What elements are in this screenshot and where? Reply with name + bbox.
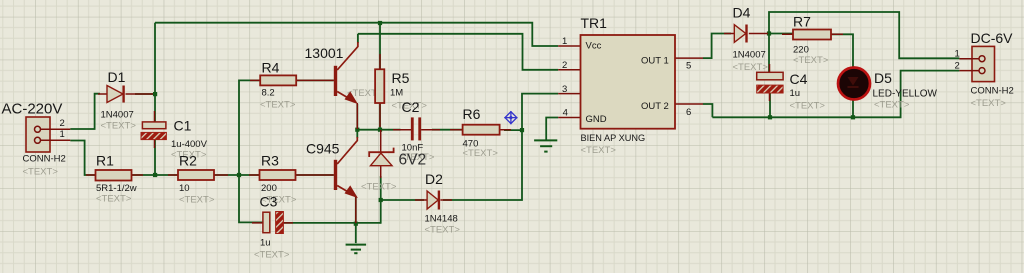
svg-text:1: 1 [955,49,960,60]
capacitor C2 10nF [393,117,440,140]
wire: C1 node down to plate [154,94,156,122]
svg-text:<TEXT>: <TEXT> [101,121,137,132]
svg-text:<TEXT>: <TEXT> [733,62,769,73]
svg-text:<TEXT>: <TEXT> [874,100,910,111]
node: Q1e-Q2c mid rail junction [355,128,359,132]
resistor R4 8.2 [250,75,310,85]
svg-text:200: 200 [261,183,277,194]
svg-text:D4: D4 [733,5,751,21]
wire: TR1 pin4 to ground [546,118,558,140]
node: R6-pin3-D2 junction [520,128,524,132]
svg-text:1u-400V: 1u-400V [171,139,208,150]
resistor R3 200 [249,170,309,180]
svg-text:1N4007: 1N4007 [101,110,134,121]
wire: zener D3 column below [380,176,382,224]
svg-text:13001: 13001 [305,45,344,61]
svg-text:220: 220 [793,45,809,56]
svg-text:<TEXT>: <TEXT> [254,250,290,261]
svg-text:1: 1 [60,129,65,140]
svg-text:C945: C945 [306,141,340,157]
wire: Q1 emitter riser to mid node [356,104,358,130]
transistor Q1 13001 [310,42,358,129]
svg-text:<TEXT>: <TEXT> [361,182,397,193]
wire: pin3 node to TR1 pin3 [522,94,558,131]
svg-text:1N4007: 1N4007 [733,50,766,61]
wire: C3 to emitter column [283,222,380,224]
svg-text:C4: C4 [790,71,808,87]
ground (under TR1 pin4) [534,140,557,151]
svg-text:Vcc: Vcc [586,41,602,52]
capacitor C4 1u (polarized) [757,64,783,101]
wire: D4 node to R7 [769,33,793,35]
wire: LED bottom to rail [852,100,854,117]
svg-text:D2: D2 [425,171,443,187]
node: emitter-C3 wire junction [354,222,358,226]
svg-text:CONN-H2: CONN-H2 [971,86,1014,97]
connector J2 DC-6V CONN-H2 [959,46,994,81]
svg-text:<TEXT>: <TEXT> [179,195,215,206]
svg-text:6: 6 [686,107,691,118]
svg-text:OUT 2: OUT 2 [641,101,669,112]
node: D1-C1 junction [153,92,157,96]
node: C4 bottom rail junction [768,115,772,119]
node: R5-zener mid rail junction [378,128,382,132]
wire: R3 to Q2 base [296,174,334,176]
svg-text:C2: C2 [402,99,420,115]
resistor R7 220 [782,30,843,40]
transistor Q2 C945 [309,137,357,223]
svg-text:4: 4 [563,108,568,119]
node: D4-R7-C4 junction [767,31,771,35]
svg-text:LED-YELLOW: LED-YELLOW [873,89,938,100]
svg-text:<TEXT>: <TEXT> [260,100,296,111]
svg-text:<TEXT>: <TEXT> [425,225,461,236]
zener diode D3 6V2 (vertical) [369,130,393,178]
wire: TR1 pin5 to D4 anode [703,34,731,59]
wire: Q1 collector riser to rail B [357,34,359,43]
wire: C1 bottom plate to R1-R2 row [154,140,156,176]
node: C1-R1-R2 junction [153,173,157,177]
wire: C2 to R6 [432,129,463,131]
svg-text:TR1: TR1 [581,15,608,31]
svg-text:CONN-H2: CONN-H2 [23,154,66,165]
node: LED bottom rail junction [851,115,855,119]
wire: D2 cathode to pin3 riser [443,130,522,200]
svg-text:R2: R2 [179,153,197,169]
svg-text:1N4148: 1N4148 [425,214,458,225]
svg-text:8.2: 8.2 [262,88,275,99]
svg-text:D5: D5 [874,70,892,86]
resistor R2 10 [168,170,228,180]
svg-text:1: 1 [562,36,567,47]
svg-text:<TEXT>: <TEXT> [23,167,59,178]
svg-text:2: 2 [60,118,65,129]
wire: R5 top riser to rail A [379,23,381,69]
diode D4 1N4007 [724,25,768,43]
capacitor C1 1u-400V (polarized) [141,111,166,148]
svg-text:<TEXT>: <TEXT> [463,148,499,159]
wire: AC pin2 to D1 riser [70,94,100,129]
svg-text:<TEXT>: <TEXT> [96,194,132,205]
wire: D4 node up to top right rail [769,12,959,58]
node: R5 top rail junction [378,21,382,25]
svg-text:<TEXT>: <TEXT> [581,145,617,156]
svg-text:D1: D1 [108,69,126,85]
svg-text:<TEXT>: <TEXT> [790,101,826,112]
svg-text:1M: 1M [390,88,403,99]
svg-text:GND: GND [586,114,607,125]
svg-text:10: 10 [179,183,190,194]
svg-text:2: 2 [562,60,567,71]
svg-text:C3: C3 [260,194,278,210]
svg-text:R1: R1 [96,153,114,169]
svg-text:R4: R4 [262,60,280,76]
wire: C3 riser from row node [239,175,263,222]
svg-text:5: 5 [686,61,691,72]
wire: bottom right rail [712,71,959,118]
svg-text:C1: C1 [174,118,192,134]
node: R2-R3-R4-C3 junction [237,173,241,177]
wire: D4 node down to C4 [768,34,770,73]
wire: AC pin1 down to R1 [70,141,95,176]
svg-text:6V2: 6V2 [399,152,427,169]
svg-text:1u: 1u [260,238,271,249]
resistor R1 5R1-1/2w [86,170,143,181]
diode D1 1N4007 [98,86,153,103]
wire: R1 to R2 row [132,174,179,176]
node marker (blue) near TR1 pin3 wire [504,111,517,124]
LED D5 LED-YELLOW [838,67,870,100]
wire: TR1 pin6 riser to rail [703,104,713,117]
svg-text:AC-220V: AC-220V [2,101,63,118]
node: zener-D2 junction [379,198,383,202]
svg-text:2: 2 [955,61,960,72]
wire: Q2 emitter to ground [355,196,357,243]
wire: rail B to TR1 pin2 [358,34,558,70]
wire: zener node to D2 anode [381,199,424,201]
diode D2 1N4148 [415,191,452,210]
wire: R4 left riser from row node [239,80,260,175]
ground (under Q2 emitter) [346,245,367,254]
svg-text:DC-6V: DC-6V [971,30,1014,46]
svg-text:R7: R7 [793,14,811,30]
wire: C4 bottom to rail [769,93,771,117]
wire: Q2 collector riser [356,130,358,138]
svg-text:BIEN AP XUNG: BIEN AP XUNG [581,133,646,143]
svg-text:R3: R3 [261,153,279,169]
resistor R6 470 [450,125,511,135]
wire: R5 bottom to mid rail [379,103,381,130]
svg-text:R6: R6 [463,106,481,122]
svg-text:1u: 1u [790,88,801,99]
connector J1 AC-220V CONN-H2 [26,117,70,152]
wire: R4 to Q1 base [297,79,334,81]
svg-text:<TEXT>: <TEXT> [793,55,829,66]
svg-text:OUT 1: OUT 1 [641,56,669,67]
transformer TR1 BIEN AP XUNG [558,35,703,129]
svg-text:3: 3 [562,84,567,95]
wire: R6 right to pin3 node [504,129,522,131]
capacitor C3 1u (polarized, horizontal) [252,212,293,234]
wire: R7 to LED riser [831,34,853,67]
svg-text:5R1-1/2w: 5R1-1/2w [96,183,137,194]
wire: mid rail node to C2 [357,129,400,131]
wire: C1 column top (node to top rail) [154,23,156,94]
wire: R2 to R3 row [214,174,260,176]
wire: top rail A to TR1 pin1 [155,23,558,46]
svg-text:<TEXT>: <TEXT> [971,98,1007,109]
wire: D1 cathode to C1 node [135,93,155,95]
svg-text:R5: R5 [392,70,410,86]
resistor R5 1M (vertical) [375,54,384,127]
